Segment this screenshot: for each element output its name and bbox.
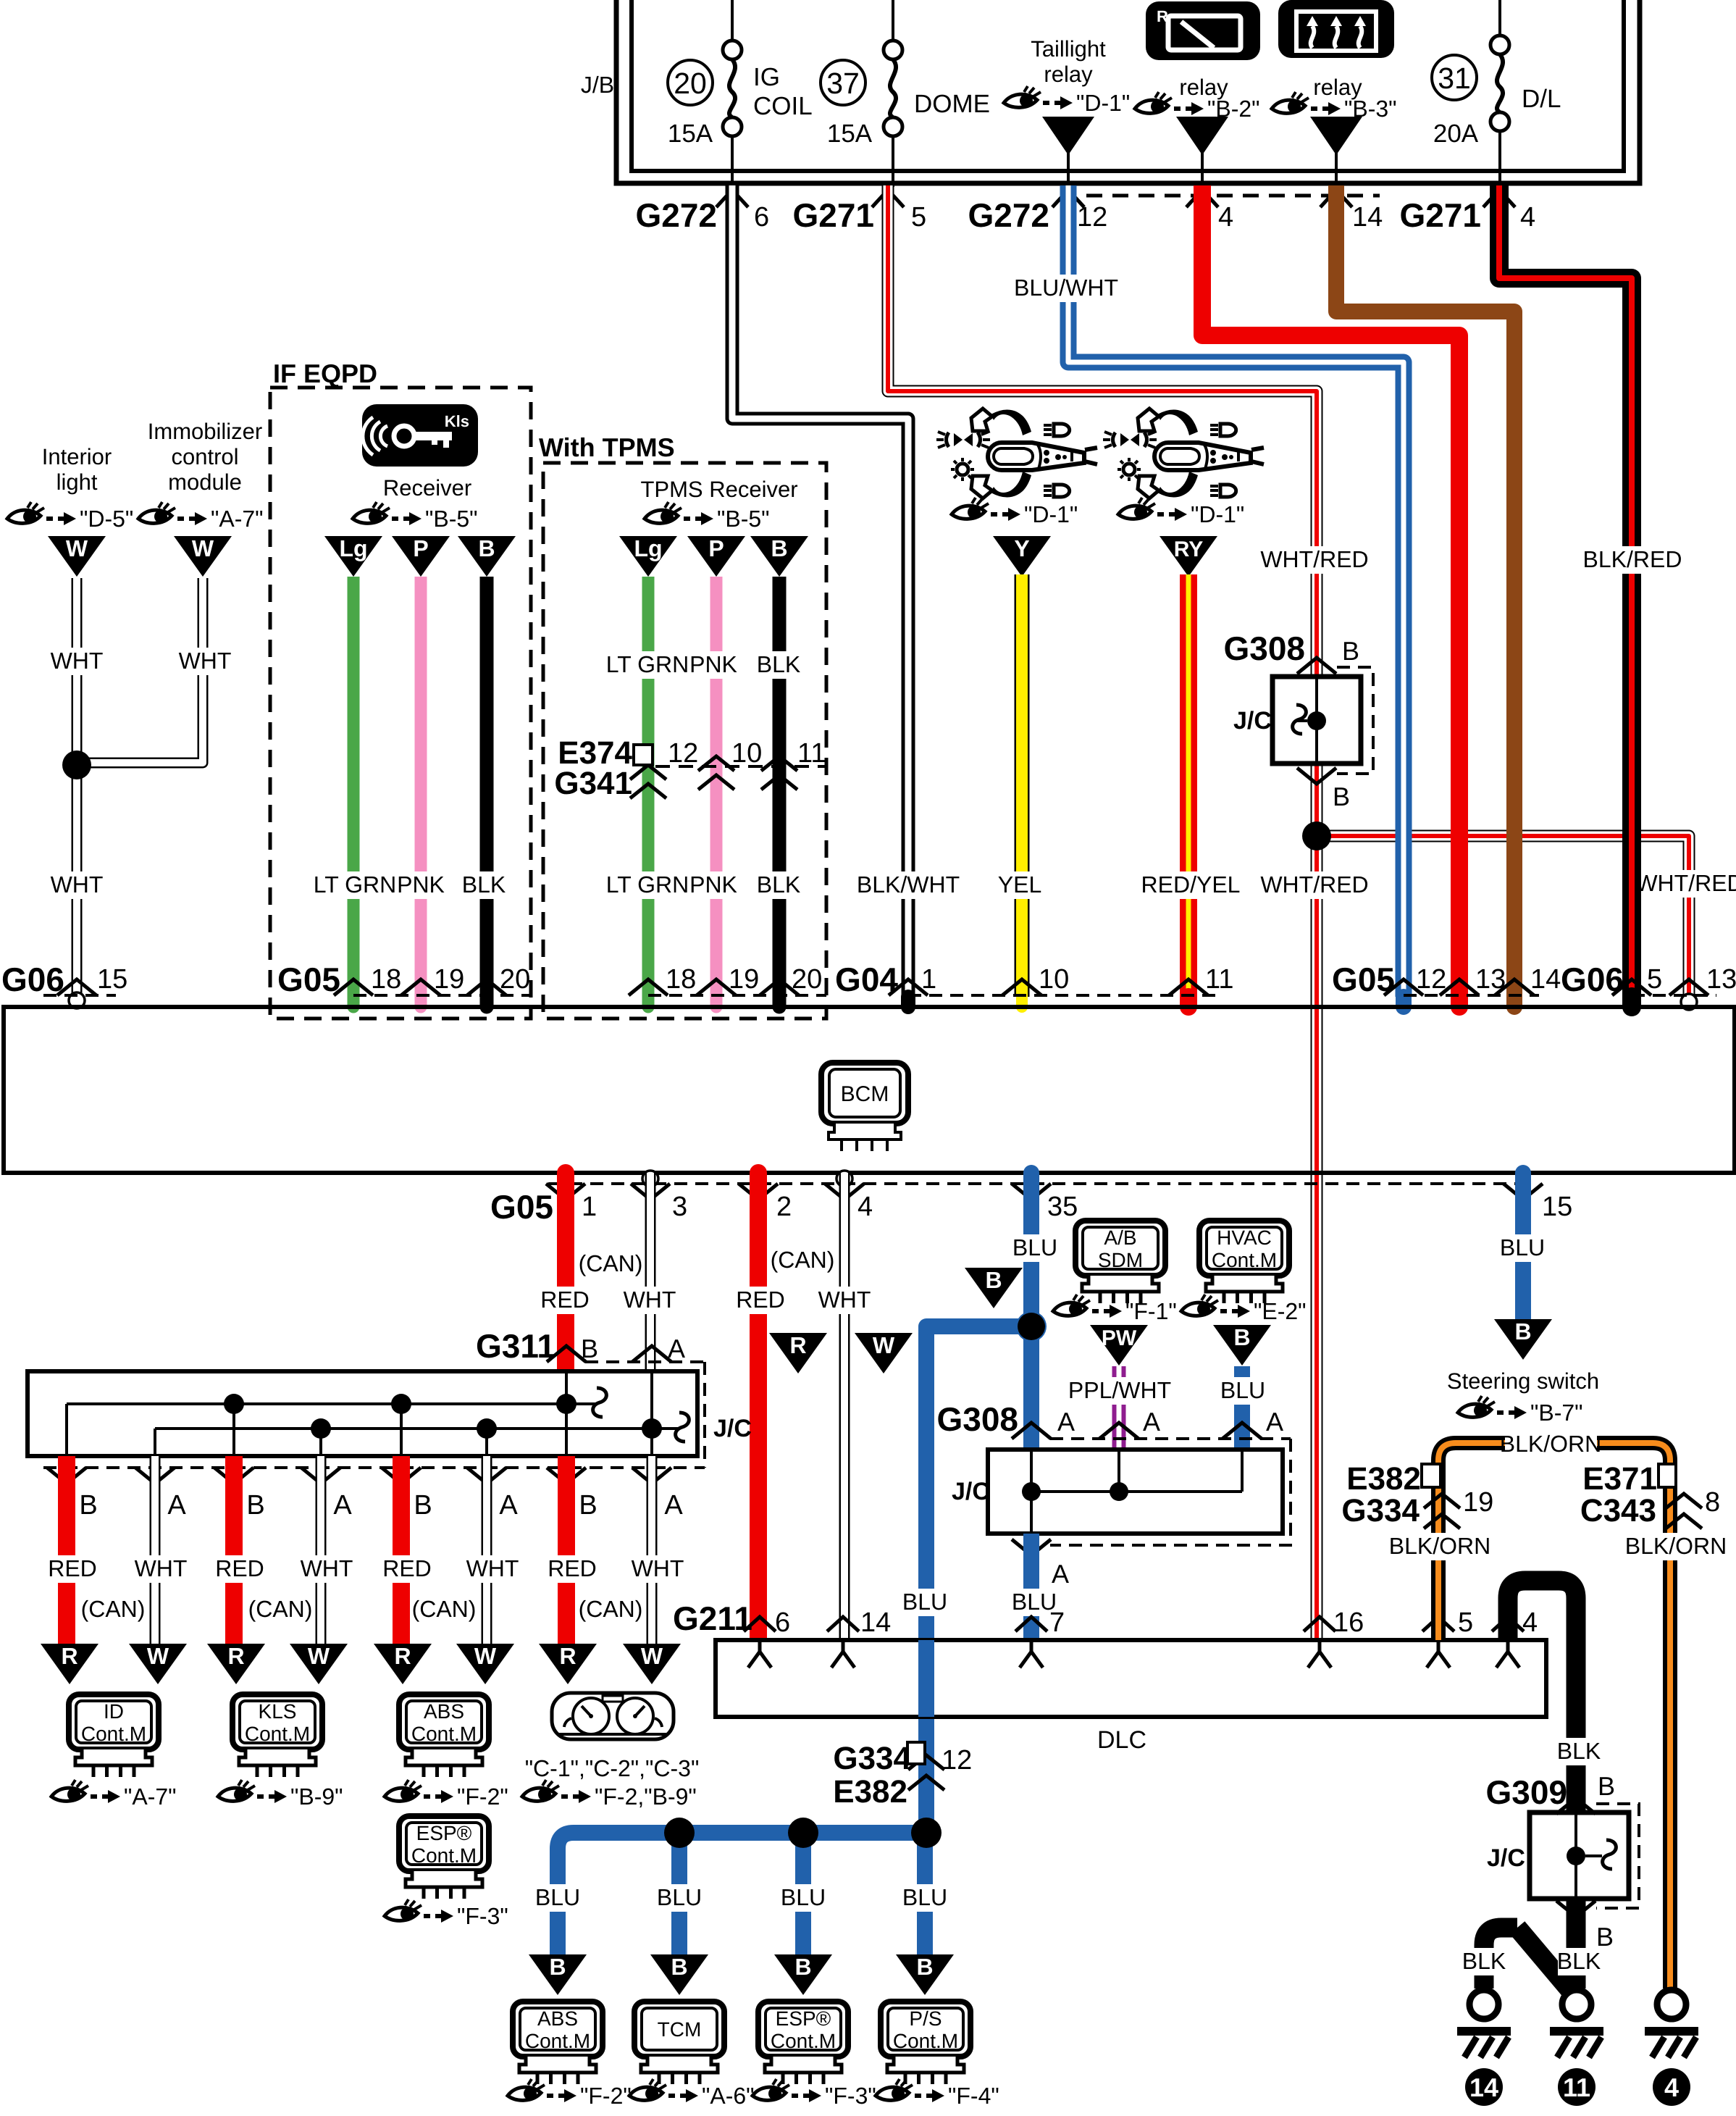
- G311 internal bus upper: [67, 1402, 597, 1405]
- BCM pin cap G06-15 bottom: [1515, 1173, 1531, 1181]
- eye to F-4 P/S: [876, 2079, 999, 2109]
- svg-text:19: 19: [729, 964, 759, 995]
- fuse 31 symbol: [1490, 35, 1509, 131]
- svg-text:(CAN): (CAN): [81, 1596, 146, 1622]
- svg-text:11: 11: [1563, 2073, 1590, 2102]
- connector G334/E382 crossing pin12: [908, 1755, 944, 1770]
- fuse 37 symbol: [884, 41, 902, 136]
- wire WHT/RED G308 to DLC-16: [1311, 764, 1323, 1640]
- svg-text:4: 4: [1520, 202, 1535, 233]
- dashed line G05 18-20: [353, 994, 532, 997]
- junction box G308 lower J/C: [988, 1450, 1283, 1534]
- svg-text:Cont.M: Cont.M: [411, 1844, 477, 1867]
- dashed box G309: [1596, 1804, 1639, 1908]
- svg-text:19: 19: [1463, 1487, 1493, 1518]
- svg-text:A: A: [167, 1490, 186, 1521]
- wire RED/YEL to BCM G04-11: [1180, 574, 1197, 997]
- eye to F-2 ABS 2: [508, 2079, 632, 2109]
- connector G308 lower top chevrons: [1012, 1423, 1051, 1439]
- svg-text:P/S: P/S: [909, 2007, 942, 2030]
- svg-text:15A: 15A: [668, 120, 713, 148]
- junction dot inside G308 J/C: [1307, 711, 1326, 730]
- svg-text:Cont.M: Cont.M: [1212, 1249, 1277, 1271]
- label LT GRN receiver: [315, 871, 395, 899]
- svg-text:A: A: [668, 1334, 685, 1363]
- svg-text:G272: G272: [968, 196, 1049, 234]
- svg-text:Cont.M: Cont.M: [411, 1723, 477, 1745]
- svg-text:B: B: [1233, 1324, 1250, 1350]
- BCM pin cap G04-11: [1180, 997, 1197, 1007]
- label BLK left: [1463, 1948, 1505, 1975]
- junction block J/B inner box: [632, 0, 1624, 171]
- connector G308 lower bottom chevron: [1012, 1539, 1051, 1555]
- svg-text:12: 12: [1077, 202, 1107, 233]
- label BLU drop 3: [782, 1884, 824, 1912]
- wire WHT CAN G05-3 to G311-A: [645, 1173, 656, 1371]
- wiper relay output arrow: [1176, 117, 1228, 155]
- wire PPL/WHT SDM to G308-A: [1112, 1366, 1126, 1450]
- eye to B-5 receiver: [353, 502, 478, 532]
- svg-text:WHT/RED: WHT/RED: [1635, 870, 1736, 896]
- svg-text:PPL/WHT: PPL/WHT: [1068, 1377, 1171, 1403]
- label RED fanout 4: [551, 1555, 593, 1583]
- DLC pin chevrons: [744, 1617, 776, 1631]
- BCM pin circle G06-13: [1681, 994, 1697, 1010]
- wire BLU pass through DLC: [918, 1640, 934, 1717]
- wire BLK/RED G271-4 to BCM G06-5: [1499, 185, 1632, 1001]
- wire WHT/RED G271-5 upper run: [888, 185, 1317, 677]
- svg-text:ABS: ABS: [537, 2007, 578, 2030]
- svg-text:19: 19: [434, 964, 464, 995]
- ground 4: [1657, 1990, 1686, 2019]
- svg-text:(CAN): (CAN): [771, 1247, 835, 1273]
- connector arrow P receiver: [392, 536, 450, 577]
- svg-text:PNK: PNK: [397, 871, 445, 898]
- dashed line G06 right: [1632, 994, 1716, 997]
- svg-text:B: B: [771, 535, 787, 561]
- eye to F-3 ESP module: [385, 1899, 508, 1929]
- svg-text:"D-1": "D-1": [1076, 90, 1130, 116]
- wire WHT interior light to BCM G06-15: [72, 578, 83, 997]
- svg-text:Cont.M: Cont.M: [245, 1723, 310, 1745]
- dashed line below BCM: [548, 1182, 1532, 1185]
- svg-text:RED: RED: [382, 1555, 432, 1581]
- svg-text:G341: G341: [554, 766, 632, 801]
- svg-text:"A-7": "A-7": [211, 506, 264, 532]
- eye to D-5 interior light: [7, 502, 133, 532]
- svg-text:COIL: COIL: [753, 92, 813, 120]
- svg-text:ESP®: ESP®: [416, 1822, 472, 1844]
- svg-text:LT GRN: LT GRN: [606, 651, 689, 677]
- svg-text:BLU: BLU: [1012, 1234, 1057, 1260]
- svg-text:RY: RY: [1174, 538, 1204, 561]
- svg-text:BLU: BLU: [1220, 1377, 1265, 1403]
- eye to A-7 ID module: [51, 1780, 177, 1810]
- label WHT G05-4: [823, 1287, 865, 1314]
- wire end arrow B steering switch: [1494, 1319, 1552, 1360]
- svg-text:With TPMS: With TPMS: [539, 432, 675, 462]
- wire RED CAN G05-1 to G311-B: [557, 1173, 574, 1371]
- connector G272 pin 12 chevron: [1052, 190, 1084, 207]
- connector G311 bottom chevrons: [47, 1468, 86, 1484]
- svg-text:BLK: BLK: [757, 871, 800, 898]
- svg-text:G308: G308: [1223, 630, 1305, 667]
- wire marker triangle W: [855, 1333, 913, 1373]
- svg-text:3: 3: [672, 1192, 687, 1222]
- connector G05 below chevrons: [546, 1184, 585, 1200]
- wire arrows B to modules: [529, 1954, 587, 1995]
- svg-text:31: 31: [1438, 62, 1471, 95]
- wire arrow B from HVAC: [1213, 1325, 1271, 1366]
- svg-text:R: R: [559, 1643, 576, 1669]
- svg-text:A: A: [1143, 1407, 1160, 1437]
- dashed box G308 upper J/C: [1337, 667, 1373, 774]
- svg-text:BLU: BLU: [535, 1884, 580, 1910]
- junction box G308 J/C: [1272, 677, 1361, 764]
- wire PNK receiver to BCM G05-19: [415, 577, 427, 997]
- svg-text:"D-5": "D-5": [80, 506, 133, 532]
- svg-text:J/B: J/B: [581, 72, 614, 98]
- svg-text:BCM: BCM: [841, 1082, 889, 1106]
- wire WHT CAN G311 branch 4: [647, 1456, 658, 1644]
- svg-text:15A: 15A: [827, 120, 873, 148]
- wiper relay icon: [1146, 1, 1260, 60]
- svg-text:WHT: WHT: [466, 1555, 519, 1581]
- svg-text:4: 4: [1522, 1607, 1538, 1638]
- svg-text:IG: IG: [753, 63, 780, 91]
- label BLU to DLC7: [1013, 1589, 1055, 1616]
- label BLU drop 2: [658, 1884, 700, 1912]
- svg-text:RED: RED: [540, 1287, 590, 1313]
- svg-text:WHT: WHT: [51, 648, 104, 674]
- square symbol G334: [907, 1742, 925, 1764]
- eye to A-7 immobilizer: [138, 502, 264, 532]
- dashed box With TPMS: [543, 463, 826, 1019]
- svg-text:TCM: TCM: [658, 2018, 702, 2041]
- junction block J/B outer box: [616, 0, 1640, 183]
- svg-text:B: B: [1596, 1922, 1614, 1952]
- svg-text:1: 1: [921, 964, 936, 995]
- svg-text:Steering switch: Steering switch: [1447, 1368, 1599, 1394]
- svg-text:A/B: A/B: [1104, 1226, 1136, 1249]
- wire BLK/ORN loop: [1438, 1443, 1670, 1989]
- defogger relay output arrow: [1310, 117, 1362, 155]
- wire PNK tpms to BCM 19: [710, 577, 723, 997]
- svg-text:relay: relay: [1044, 62, 1093, 87]
- svg-text:TPMS Receiver: TPMS Receiver: [640, 477, 797, 502]
- svg-text:BLK/ORN: BLK/ORN: [1389, 1533, 1490, 1559]
- wire WHT CAN G311 branch 3: [482, 1456, 492, 1644]
- svg-text:13: 13: [1706, 964, 1736, 995]
- label BLU G06-15: [1501, 1234, 1543, 1262]
- svg-text:Y: Y: [1014, 535, 1029, 561]
- label WHT immobilizer: [184, 648, 226, 675]
- wire LT GRN receiver to BCM G05-18: [348, 577, 360, 997]
- svg-text:20: 20: [792, 964, 822, 995]
- svg-text:12: 12: [1416, 964, 1446, 995]
- connector pin 14 chevron (B-3 relay): [1320, 190, 1352, 207]
- svg-text:W: W: [873, 1332, 895, 1358]
- BCM pin cap tpms 20: [773, 997, 787, 1007]
- svg-text:control: control: [171, 444, 238, 469]
- wire BLK/RED crossing overdraw: [1622, 811, 1641, 862]
- label LT GRN tpms lower: [608, 871, 687, 899]
- svg-text:BLK/RED: BLK/RED: [1583, 546, 1682, 572]
- wire BRN crossing overdraw: [1506, 811, 1522, 862]
- wire marker triangle R: [769, 1333, 827, 1373]
- fuse 20 symbol: [723, 41, 742, 136]
- svg-text:BLU: BLU: [902, 1884, 947, 1910]
- svg-text:"A-7": "A-7": [124, 1783, 177, 1810]
- BCM pin cap G06-5: [1622, 997, 1641, 1007]
- wire BLK G309 to ground 11: [1567, 1899, 1586, 1989]
- dashed connector line G272 row: [1086, 194, 1380, 198]
- svg-text:8: 8: [1705, 1487, 1720, 1518]
- wire BLU bus horizontal: [558, 1833, 928, 1954]
- BCM pin cap G05-12: [1396, 997, 1412, 1007]
- svg-text:ID: ID: [104, 1700, 124, 1723]
- eye to E-2 HVAC: [1181, 1295, 1307, 1324]
- module icon A/B SDM: [1075, 1221, 1165, 1276]
- label BLK tpms lower: [758, 871, 800, 899]
- svg-text:A: A: [499, 1490, 518, 1521]
- wire marker triangle B hvac-feed: [965, 1268, 1023, 1308]
- wire WHT CAN G311 branch 2: [316, 1456, 327, 1644]
- svg-text:"A-6": "A-6": [702, 2083, 755, 2109]
- junction dots BLU bus: [664, 1818, 695, 1848]
- dashed line E374 connector row: [655, 765, 826, 768]
- wire WHT/RED branch to BCM G06-13: [1317, 836, 1689, 997]
- label WHT fanout 3: [471, 1555, 513, 1583]
- svg-text:G211: G211: [673, 1599, 752, 1637]
- eye to B-3 defogger relay: [1272, 92, 1397, 122]
- eye to A-6 TCM: [629, 2079, 755, 2109]
- svg-text:module: module: [168, 469, 242, 495]
- wire BLU G308 to DLC-7: [1023, 1534, 1039, 1640]
- connector G05 right chevrons: [1384, 979, 1423, 995]
- svg-text:WHT/RED: WHT/RED: [1260, 871, 1368, 898]
- svg-text:15: 15: [1542, 1192, 1572, 1222]
- svg-text:G272: G272: [635, 196, 717, 234]
- G311 internal pin stubs: [65, 1404, 68, 1456]
- connector G06-15 below chevron: [1504, 1184, 1543, 1200]
- svg-text:BLU: BLU: [657, 1884, 702, 1910]
- G308 lower internals: [1030, 1450, 1033, 1534]
- svg-text:"B-9": "B-9": [290, 1783, 343, 1810]
- label WHT interior 1: [56, 648, 98, 675]
- svg-text:G06: G06: [1, 961, 64, 998]
- svg-text:12: 12: [668, 738, 698, 769]
- wire RED relay B-2 to BCM G05-13: [1202, 185, 1459, 997]
- label BLK/ORN left: [1394, 1533, 1486, 1560]
- wire fuse31 feed: [1498, 0, 1501, 35]
- svg-text:RED/YEL: RED/YEL: [1141, 871, 1241, 898]
- svg-text:Lg: Lg: [634, 535, 662, 561]
- svg-text:A: A: [664, 1490, 683, 1521]
- eye to B-5 tpms receiver: [645, 502, 770, 532]
- connector arrow W immobilizer: [174, 536, 232, 577]
- dashes G06-15: [43, 994, 116, 997]
- connector G309-B top chevron: [1556, 1798, 1595, 1814]
- connector G271 pin 4 chevron: [1483, 190, 1515, 207]
- module icon ID Cont.M: [69, 1694, 159, 1749]
- wire WHT immobilizer to junction: [77, 578, 203, 763]
- fuse 31 circle: [1432, 55, 1477, 100]
- svg-text:W: W: [147, 1643, 169, 1669]
- junction box G309 J/C: [1530, 1812, 1629, 1899]
- square symbol E371: [1659, 1464, 1676, 1487]
- svg-text:PW: PW: [1102, 1326, 1137, 1350]
- eye to B-2 wiper relay: [1135, 92, 1260, 122]
- BCM pin cap G05-20: [480, 997, 494, 1007]
- BCM pin circle G06-15: [69, 992, 85, 1008]
- label YEL: [999, 871, 1041, 899]
- svg-text:W: W: [308, 1643, 330, 1669]
- BCM pin cap G04-1: [901, 997, 915, 1007]
- svg-text:J/C: J/C: [952, 1478, 990, 1505]
- svg-text:E382: E382: [1346, 1461, 1421, 1497]
- dashed box G308 lower: [1050, 1439, 1291, 1545]
- svg-text:35: 35: [1047, 1192, 1078, 1222]
- svg-text:light: light: [56, 469, 98, 495]
- svg-text:"F-3": "F-3": [457, 1903, 508, 1929]
- connector arrow Lg receiver: [324, 536, 382, 577]
- wire BLK tpms to BCM 20: [773, 577, 787, 997]
- junction dot WHT/RED: [1302, 821, 1331, 850]
- svg-text:R: R: [789, 1332, 806, 1358]
- module icon ESP Cont.M 2: [758, 2002, 848, 2057]
- label BLU HVAC: [1222, 1377, 1264, 1405]
- svg-text:RED: RED: [548, 1555, 597, 1581]
- label RED fanout 2: [219, 1555, 261, 1583]
- connector G308-B bottom chevron: [1297, 768, 1336, 784]
- svg-text:"F-3": "F-3": [825, 2083, 876, 2109]
- svg-text:P: P: [413, 535, 428, 561]
- svg-text:"F-1": "F-1": [1125, 1298, 1177, 1324]
- svg-text:BLK: BLK: [1557, 1738, 1601, 1764]
- eye to F-2 ABS module: [385, 1780, 508, 1810]
- wire BLK diagonal: [1517, 1928, 1576, 1997]
- svg-text:"B-7": "B-7": [1530, 1400, 1583, 1426]
- label WHT interior 2: [56, 871, 98, 899]
- wire BLU drop P/S: [917, 1833, 933, 1954]
- svg-text:B: B: [985, 1267, 1002, 1293]
- svg-text:"D-1": "D-1": [1191, 501, 1244, 527]
- dashed line G04: [908, 994, 1217, 997]
- svg-text:B: B: [549, 1954, 566, 1980]
- svg-text:18: 18: [371, 964, 401, 995]
- svg-text:"B-5": "B-5": [425, 506, 478, 532]
- wire BLU G05-35 down to G308 J/C: [1023, 1173, 1039, 1450]
- connector G272 pin 6 chevron: [716, 190, 748, 207]
- svg-text:R: R: [394, 1643, 411, 1669]
- wire YEL to BCM G04-10: [1015, 574, 1030, 997]
- svg-text:18: 18: [666, 964, 696, 995]
- svg-text:(CAN): (CAN): [248, 1596, 313, 1622]
- ground 14: [1469, 1990, 1498, 2019]
- svg-text:WHT/RED: WHT/RED: [1260, 546, 1368, 572]
- wire BLU G06-15 to steering switch: [1515, 1173, 1531, 1321]
- svg-text:C343: C343: [1580, 1493, 1656, 1529]
- svg-text:DLC: DLC: [1097, 1726, 1146, 1754]
- svg-text:14: 14: [860, 1607, 891, 1638]
- defogger relay icon: [1278, 0, 1394, 58]
- svg-text:WHT: WHT: [51, 871, 104, 898]
- svg-text:2: 2: [776, 1192, 792, 1222]
- junction dot interior light / immobilizer: [62, 750, 91, 779]
- combination switch icon 1: [936, 409, 1097, 498]
- svg-text:Cont.M: Cont.M: [771, 2030, 836, 2052]
- svg-text:PNK: PNK: [689, 871, 737, 898]
- svg-text:WHT: WHT: [624, 1287, 676, 1313]
- svg-text:BLK/WHT: BLK/WHT: [857, 871, 960, 898]
- svg-text:B: B: [1598, 1771, 1615, 1801]
- BCM pin cap G05-1 bottom: [557, 1173, 574, 1181]
- module icon ABS Cont.M: [399, 1694, 489, 1749]
- svg-text:J/C: J/C: [1487, 1844, 1525, 1872]
- connector G06 pin 15 chevron: [57, 979, 96, 995]
- connector pin 4 chevron (B-2 relay): [1186, 190, 1218, 207]
- wire BLK DLC-4 to G309: [1508, 1581, 1576, 1812]
- wire BLK receiver to BCM G05-20: [480, 577, 494, 997]
- connector G04 chevrons: [889, 979, 928, 995]
- label BLU drop 1: [537, 1884, 579, 1912]
- svg-text:W: W: [474, 1643, 497, 1669]
- BCM pin cap tpms 19: [710, 997, 723, 1007]
- wire fuse37 feed: [892, 0, 894, 41]
- svg-text:A: A: [1057, 1407, 1075, 1437]
- svg-text:WHT: WHT: [179, 648, 232, 674]
- label BLU drop 4: [904, 1884, 946, 1912]
- connector E374/G341 crossing wire 11: [761, 756, 797, 771]
- connector arrow Y: [993, 536, 1051, 577]
- svg-text:BLK/ORN: BLK/ORN: [1625, 1533, 1727, 1559]
- svg-text:B: B: [478, 535, 495, 561]
- svg-text:"F-2": "F-2": [457, 1783, 508, 1810]
- BCM pin cap G04-10: [1016, 998, 1028, 1007]
- svg-text:BLK: BLK: [1557, 1948, 1601, 1974]
- svg-text:B: B: [794, 1954, 811, 1980]
- wire fuse20 feed: [731, 0, 734, 41]
- svg-text:13: 13: [1475, 964, 1506, 995]
- dashed line tpms 18-20: [648, 994, 826, 997]
- svg-text:P: P: [708, 535, 724, 561]
- connector G311 top chevrons: [547, 1346, 586, 1362]
- svg-text:W: W: [641, 1643, 663, 1669]
- svg-text:G04: G04: [835, 961, 898, 998]
- eye to F-2 B-9 cluster: [522, 1780, 697, 1810]
- wire BLU/WHT G272-12 to BCM G05-12: [1068, 185, 1404, 997]
- svg-text:LT GRN: LT GRN: [314, 871, 396, 898]
- junction dot inside G309: [1567, 1847, 1585, 1865]
- svg-text:SDM: SDM: [1098, 1249, 1143, 1271]
- svg-text:ESP®: ESP®: [776, 2007, 831, 2030]
- label BLK/ORN top: [1505, 1431, 1597, 1458]
- BCM pin cap G05-14: [1506, 997, 1522, 1007]
- svg-text:BLK: BLK: [757, 651, 800, 677]
- svg-text:15: 15: [97, 964, 127, 995]
- wire RED CAN G311 branch 2: [225, 1456, 243, 1644]
- label BLK/WHT: [863, 871, 955, 899]
- wire BLU/WHT crossing overdraw: [1396, 811, 1412, 862]
- BCM pin cap G05-13: [1451, 997, 1468, 1007]
- wire fuse37 to box bottom: [892, 136, 894, 187]
- svg-text:B: B: [581, 1334, 598, 1363]
- svg-text:14: 14: [1352, 202, 1383, 233]
- eye to D-1 taillight relay: [1004, 86, 1130, 116]
- label RED fanout 1: [51, 1555, 93, 1583]
- wire BLU drop ESP: [795, 1833, 811, 1954]
